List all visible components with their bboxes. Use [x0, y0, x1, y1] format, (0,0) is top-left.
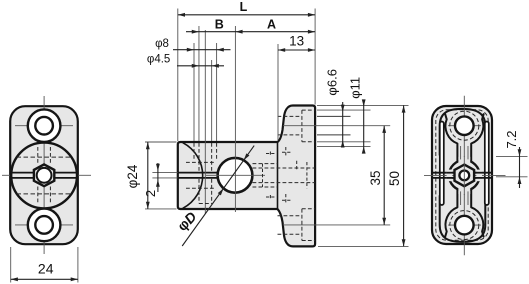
right view top hole: [455, 116, 474, 135]
slit lines middle view: [178, 172, 219, 174]
gray gap patches over boss circle: [447, 170, 453, 182]
extension line B left / phi4.5 left: [198, 26, 200, 141]
left view: flange front outline: [10, 106, 78, 244]
hidden lines: nut pocket in boss: [253, 163, 278, 165]
right view vertical centerline: [463, 96, 465, 256]
arrow A right: [308, 30, 315, 34]
extension line flange bottom right: [318, 245, 409, 247]
dimension 35 line: [383, 126, 385, 225]
middle view part silhouette: [178, 106, 315, 247]
dimension 24 line: [11, 278, 78, 280]
left view bottom hole centerline: [15, 224, 73, 226]
dimension L line: [178, 14, 315, 16]
right view slit lines: [432, 172, 454, 174]
right view near-outline arc bottom: [440, 196, 486, 242]
right view slit stubs through boss circle gaps: [447, 172, 455, 174]
dimension 7.2 line: [519, 147, 521, 188]
dimension 50 line: [403, 105, 405, 246]
dimension 7.2 extension lines: [496, 155, 528, 157]
right view column inner edges: [460, 146, 462, 159]
dimension phi24 extension lines: [145, 141, 177, 143]
svg-text:A: A: [267, 18, 276, 32]
right view top-left chalice wall: [445, 114, 457, 161]
svg-text:φ11: φ11: [347, 77, 362, 99]
clamp screw hole centerline: [204, 30, 206, 214]
dimension 13 line: [278, 49, 315, 51]
phi8 outside arrows: [187, 48, 194, 52]
dimension phi11 line: [363, 102, 365, 153]
left view vertical centerline: [43, 96, 45, 254]
left view center hole in nut: [37, 168, 52, 183]
svg-text:50: 50: [387, 171, 402, 186]
flange front face edge: [277, 142, 279, 209]
right view bottom hole: [455, 216, 474, 235]
right view center hole: [459, 171, 469, 181]
right view top hole dashed circle: [450, 111, 479, 140]
dimension 2 extension lines (slit): [152, 172, 177, 174]
extension line right face: [314, 9, 316, 105]
extension line below phi11: [317, 145, 371, 147]
right view right side slot: [485, 122, 489, 206]
left view horizontal centerline (slit axis): [2, 174, 10, 176]
phi D leader line: [182, 146, 254, 246]
dimension 2 line: [157, 163, 159, 192]
extension line phi4.5 right: [211, 60, 213, 141]
svg-text:7.2: 7.2: [504, 130, 519, 148]
extension line flange top right: [317, 104, 409, 106]
extension line 13 left: [277, 44, 279, 140]
phi4.5 outside arrows: [192, 64, 199, 68]
right view: flange back outline: [432, 106, 492, 244]
left view boss circle (phi24): [11, 143, 77, 209]
extension line L left: [177, 9, 179, 142]
extension line top hole centerline right: [283, 125, 390, 127]
hidden lines: phi4.5 screw hole sides: [198, 143, 200, 172]
right view top-right chalice wall: [471, 114, 483, 161]
extension line phi8 right: [216, 43, 218, 141]
svg-text:2: 2: [143, 190, 158, 197]
right view centerline stub through gaps: [463, 156, 465, 195]
svg-text:φ4.5: φ4.5: [147, 53, 170, 65]
right view bottom-left chalice wall: [445, 189, 457, 236]
svg-text:24: 24: [38, 261, 54, 277]
right view bottom-right chalice wall: [471, 189, 483, 236]
shaft bore circle phi D: [218, 158, 253, 193]
arrow B left (outside): [192, 30, 199, 34]
left view top mounting hole phi6.6: [35, 117, 53, 135]
left view hex nut: [34, 164, 54, 186]
svg-text:φ8: φ8: [155, 38, 169, 50]
right view horizontal centerline: [424, 174, 506, 176]
extension line bottom hole centerline right: [283, 224, 390, 226]
arrow shared at B/A boundary: [235, 30, 242, 34]
svg-text:35: 35: [368, 170, 383, 185]
extension line phi11 top: [317, 109, 371, 111]
right view near-outline arc top: [440, 109, 486, 155]
hidden lines: center hole through flange: [253, 167, 316, 169]
right view bottom hole centerline: [448, 224, 481, 226]
hidden lines: top mounting hole in flange: [302, 109, 315, 111]
left view hidden bore lines (phi D): [17, 156, 73, 158]
extension line phi6.6 top: [317, 115, 351, 117]
dimension phi24 line: [147, 142, 149, 209]
dimension 24 extension lines: [10, 247, 12, 283]
dimension phi8 line: [173, 49, 231, 51]
right view hex nut: [455, 165, 475, 187]
extension line phi6.6 bottom: [317, 134, 351, 136]
svg-text:φD: φD: [174, 208, 199, 234]
left view top hole centerline: [15, 125, 73, 127]
right view boss circle around hex (broken): [449, 160, 480, 191]
hidden lines: flange center recess: [296, 161, 298, 171]
left view slit lines: [10, 172, 34, 174]
extension line phi11 bottom: [317, 141, 371, 143]
right view inner dashed contour: [436, 110, 488, 240]
dimension phi4.5 line: [177, 65, 224, 67]
svg-text:φ6.6: φ6.6: [324, 69, 339, 96]
right view bottom hole dashed circle: [450, 211, 479, 240]
dimension B and A line: [186, 31, 315, 33]
middle view horizontal centerline: [206, 174, 265, 176]
hidden lines: phi8 counterbore sides: [193, 143, 195, 161]
boss end recess arc: [183, 143, 203, 208]
svg-text:13: 13: [289, 33, 304, 48]
svg-text:φ24: φ24: [125, 164, 140, 188]
svg-text:B: B: [215, 17, 224, 31]
dimension phi6.6 line: [342, 102, 344, 146]
left view hidden clamp screw hole lines: [37, 147, 39, 165]
right view top hole centerline: [448, 125, 481, 127]
left view top mounting hole counterbore phi11: [28, 109, 61, 142]
bore vertical centerline / BA boundary extension: [234, 26, 236, 212]
left view bottom mounting hole counterbore phi11: [28, 209, 61, 242]
hidden lines: bore through boss left of circle: [186, 161, 216, 163]
left view bottom mounting hole phi6.6: [35, 216, 53, 234]
right view left side slot: [440, 122, 444, 206]
svg-text:L: L: [240, 0, 248, 14]
hidden lines: bottom mounting hole in flange: [302, 208, 315, 210]
extension line phi8 left: [193, 43, 195, 141]
